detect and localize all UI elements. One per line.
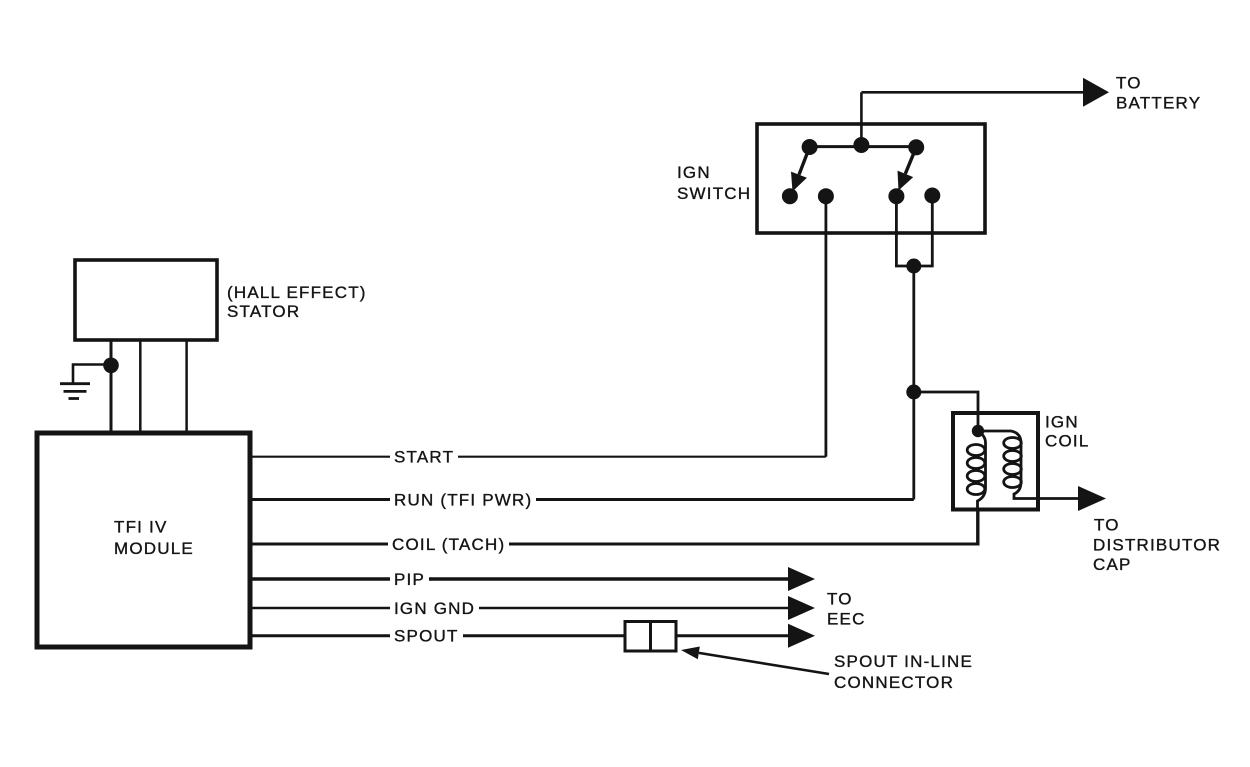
- wire branch to ign coil: [914, 392, 978, 431]
- svg-text:COIL (TACH): COIL (TACH): [392, 535, 505, 554]
- svg-text:TO: TO: [827, 590, 853, 609]
- svg-text:CAP: CAP: [1093, 555, 1132, 574]
- node B+ (top-left switch contact): [802, 139, 818, 155]
- wire RUN (TFI PWR): [250, 498, 914, 501]
- wire PIP: [250, 577, 789, 580]
- label TO BATTERY: [1116, 74, 1201, 113]
- label IGN SWITCH: [677, 163, 751, 203]
- wire ground lead: [73, 365, 111, 384]
- label SPOUT: [394, 627, 459, 646]
- svg-text:(HALL EFFECT): (HALL EFFECT): [227, 283, 367, 302]
- svg-text:TFI IV: TFI IV: [114, 518, 167, 537]
- coil primary winding: [967, 431, 985, 544]
- wire START: [250, 456, 826, 458]
- svg-text:PIP: PIP: [394, 570, 425, 589]
- node battery feed (top-center switch contact): [853, 137, 869, 153]
- svg-text:IGN: IGN: [1045, 413, 1079, 432]
- label IGN GND: [394, 599, 475, 618]
- svg-text:MODULE: MODULE: [114, 539, 194, 558]
- junction dot below switch: [906, 259, 921, 274]
- svg-text:STATOR: STATOR: [227, 302, 300, 321]
- svg-text:IGN GND: IGN GND: [394, 599, 475, 618]
- node start output contact: [818, 188, 834, 204]
- svg-text:SPOUT: SPOUT: [394, 627, 459, 646]
- svg-text:EEC: EEC: [827, 610, 866, 629]
- node run output contact: [924, 188, 940, 204]
- label TFI IV MODULE: [114, 518, 194, 559]
- svg-text:TO: TO: [1094, 516, 1120, 535]
- node start contact (bottom-left): [782, 188, 798, 204]
- svg-text:RUN (TFI PWR): RUN (TFI PWR): [394, 491, 532, 510]
- svg-text:IGN: IGN: [677, 163, 711, 182]
- wire IGN GND: [250, 607, 789, 610]
- leader line for connector callout: [681, 647, 829, 675]
- label RUN (TFI PWR): [394, 491, 532, 510]
- wire COIL (TACH): [250, 510, 978, 544]
- svg-text:COIL: COIL: [1045, 432, 1089, 451]
- svg-text:DISTRIBUTOR: DISTRIBUTOR: [1093, 535, 1221, 554]
- svg-text:SWITCH: SWITCH: [677, 184, 751, 203]
- arrowhead IGN GND to EEC: [788, 596, 815, 620]
- arrowhead PIP to EEC: [788, 567, 815, 591]
- spout in-line connector J1: [625, 622, 676, 652]
- wire run feed vertical (x=914): [912, 266, 915, 500]
- wire run contact drop (x=896): [896, 196, 932, 267]
- arrowhead SPOUT to EEC: [788, 624, 815, 648]
- label (HALL EFFECT) STATOR: [227, 283, 367, 321]
- svg-text:BATTERY: BATTERY: [1116, 94, 1201, 113]
- wire to battery (horizontal): [861, 91, 1084, 94]
- label COIL (TACH): [392, 535, 505, 554]
- node top-right switch contact: [908, 139, 924, 155]
- switch arm 1 (start pole): [791, 147, 810, 192]
- junction dot stator ground: [103, 358, 119, 374]
- junction dot at coil branch: [906, 385, 921, 400]
- hall effect stator box: [75, 260, 217, 340]
- wire to battery (vertical from common): [860, 92, 863, 145]
- label START: [394, 448, 454, 467]
- TFI IV module box U1: [37, 433, 250, 647]
- label TO EEC: [827, 590, 866, 629]
- wire stator pin 3: [185, 339, 188, 433]
- node run contact: [888, 188, 904, 204]
- node coil primary top: [972, 425, 984, 437]
- ground: [60, 384, 90, 399]
- wire switch common bus: [810, 145, 917, 148]
- svg-text:START: START: [394, 448, 454, 467]
- wire stator pin 1: [110, 339, 113, 433]
- wire SPOUT (right of connector): [676, 634, 789, 637]
- arrowhead to distributor cap: [1078, 486, 1106, 511]
- label TO DISTRIBUTOR CAP: [1093, 516, 1221, 575]
- label SPOUT IN-LINE CONNECTOR: [834, 652, 973, 692]
- svg-text:CONNECTOR: CONNECTOR: [834, 673, 954, 692]
- wire start contact drop (x=826): [825, 196, 828, 457]
- label IGN COIL: [1045, 413, 1089, 451]
- label PIP: [394, 570, 425, 589]
- arrowhead to battery: [1083, 78, 1109, 107]
- wire SPOUT (left of connector): [250, 634, 625, 637]
- switch arm 2 (run pole): [898, 147, 917, 190]
- svg-text:SPOUT IN-LINE: SPOUT IN-LINE: [834, 652, 973, 671]
- ign coil box T1: [953, 413, 1038, 510]
- svg-text:TO: TO: [1116, 74, 1142, 93]
- ign switch box S1: [757, 124, 985, 233]
- wire stator pin 2: [139, 339, 142, 433]
- coil secondary winding: [978, 431, 1079, 499]
